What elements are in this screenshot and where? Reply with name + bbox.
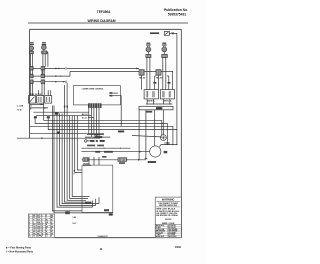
svg-text:BAKE EL: BAKE EL <box>147 100 156 103</box>
svg-text:BROIL EL: BROIL EL <box>163 101 172 103</box>
svg-text:LOWER OVEN CONTROL: LOWER OVEN CONTROL <box>82 88 105 90</box>
surface element box E4 <box>162 52 168 58</box>
door latch cluster top line <box>87 134 104 136</box>
surface element SE6 row3 <box>41 80 45 84</box>
svg-text:10: 10 <box>29 236 31 238</box>
motor feed bus with arrow <box>81 151 149 153</box>
surface element EA <box>139 70 144 76</box>
svg-text:‹NOTE›: ‹NOTE› <box>165 219 172 221</box>
wire EA drop <box>136 68 141 90</box>
relay bank 2 box <box>160 90 174 99</box>
svg-text:BR–BROWN OR–ORNGE: BR–BROWN OR–ORNGE <box>156 215 178 217</box>
surface unit switch SU1 knob <box>29 46 33 50</box>
svg-text:5–BK: 5–BK <box>73 217 77 219</box>
svg-text:ML: ML <box>51 220 53 222</box>
frame left edge (partial) <box>29 29 31 138</box>
surface unit switch SU3 label <box>146 43 150 46</box>
wire drop x145.9 terminal <box>145 110 148 160</box>
wire SE links row1-row2 <box>31 70 45 74</box>
bundle wire V2 <box>60 114 96 206</box>
wire tick marks <box>153 82 170 84</box>
wire label on feed line <box>118 131 124 133</box>
oven sensor label <box>83 164 92 168</box>
svg-text:V VIOLET: V VIOLET <box>156 232 163 234</box>
wire Hb <box>36 114 91 116</box>
svg-text:REL: REL <box>37 233 40 235</box>
svg-text:6: 6 <box>42 215 43 217</box>
surface unit switch SU2 knob <box>42 44 47 50</box>
oven thermostat box <box>37 96 44 104</box>
svg-text:BU: BU <box>46 220 48 222</box>
svg-text:SN: SN <box>51 233 53 235</box>
svg-text:11: 11 <box>42 226 44 228</box>
svg-text:MT: MT <box>51 231 53 233</box>
wire SU2 drops <box>43 53 48 75</box>
latch cluster marks <box>90 140 105 142</box>
bundle wire V5 <box>67 83 86 201</box>
oven sensor element <box>83 158 88 162</box>
svg-text:7: 7 <box>42 217 43 219</box>
connector bar label <box>146 111 152 113</box>
svg-text:RR–SU: RR–SU <box>156 77 163 79</box>
svg-text:216S00137: 216S00137 <box>98 236 109 238</box>
surface unit switch SU1 label <box>30 42 34 45</box>
bottom right label smudges <box>73 217 77 225</box>
wire SU3 drops <box>147 58 150 90</box>
warning rule 1 <box>156 200 180 202</box>
bundle wire V4 <box>65 85 86 202</box>
lamp label <box>164 142 170 146</box>
svg-text:SENSOR: SENSOR <box>83 165 92 167</box>
svg-text:LT: LT <box>51 222 53 224</box>
svg-text:L1–BK: L1–BK <box>18 106 24 108</box>
bundle wire V8 turns right <box>75 116 82 173</box>
svg-text:11: 11 <box>100 247 103 251</box>
staircase labels <box>85 202 109 212</box>
motor circle <box>150 146 161 157</box>
door latch second line <box>85 136 110 138</box>
wire drop x139.1 <box>138 110 140 160</box>
svg-text:9: 9 <box>74 174 75 176</box>
nested corner up-turns <box>93 197 99 207</box>
wire control pins drop <box>118 96 122 127</box>
svg-text:WARNING: WARNING <box>162 198 175 202</box>
wire code table text <box>156 224 179 238</box>
svg-text:Y: Y <box>33 222 34 224</box>
harness labels left of strip <box>82 113 88 119</box>
bundle wire V7 <box>72 116 89 197</box>
surface element box E2 <box>41 51 48 54</box>
cluster lower smudges <box>95 151 113 158</box>
warning rule 2 <box>156 206 180 208</box>
surface unit switch SU4 knob <box>162 46 167 52</box>
oven light assembly label <box>150 32 159 34</box>
bus B1 with arrow and junction <box>33 68 139 70</box>
page number <box>100 247 103 251</box>
svg-text:10/92: 10/92 <box>175 246 182 249</box>
wire Hg <box>30 133 104 135</box>
wire drop x154.7 to motor <box>154 110 156 146</box>
surface element SE3 row2 <box>30 74 33 77</box>
surface element SE1 row1 <box>29 67 33 70</box>
relay bank 1 box <box>144 90 158 99</box>
surface unit switch SU2 label <box>42 42 46 45</box>
svg-text:L1: L1 <box>46 236 48 238</box>
wire SU4 drops <box>163 58 166 90</box>
wire extra drops to banks <box>155 76 169 90</box>
svg-text:W–14: W–14 <box>82 117 87 120</box>
svg-text:SUPPLY: SUPPLY <box>37 236 43 238</box>
terminal blob TB2 <box>47 116 50 118</box>
left pair wire La <box>53 106 83 211</box>
svg-text:5995375491: 5995375491 <box>168 12 187 16</box>
svg-text:BU: BU <box>46 233 48 235</box>
control box label <box>82 88 105 90</box>
control box connector strip <box>88 103 102 108</box>
wire labels at V8 V9 turns <box>74 170 75 175</box>
code table <box>28 214 54 237</box>
publication number text <box>164 8 188 16</box>
footer legend <box>5 247 34 254</box>
supply labels <box>18 105 33 111</box>
frame bottom edge <box>55 237 182 239</box>
wires element rows to switch boxes <box>31 84 51 96</box>
svg-text:R RED: R RED <box>156 227 162 229</box>
wire code table <box>155 225 181 238</box>
oven light element <box>118 158 127 162</box>
wire SU1 drops <box>30 54 32 67</box>
bottom bus y159.8 with arrow <box>82 159 146 161</box>
svg-text:BU: BU <box>33 224 35 226</box>
motor label <box>164 151 168 153</box>
svg-text:BK/W BLK: BK/W BLK <box>168 236 177 238</box>
svg-text:L1: L1 <box>30 105 32 107</box>
svg-text:BU BLUE: BU BLUE <box>168 227 176 229</box>
svg-text:OVN: OVN <box>37 224 40 226</box>
svg-text:GN: GN <box>46 222 48 224</box>
surface element SE4 row2 <box>41 74 45 77</box>
svg-text:DL: DL <box>51 229 53 231</box>
svg-text:BR BROWN: BR BROWN <box>156 231 166 233</box>
wire Hc <box>44 103 162 135</box>
oven selector switch box <box>29 96 36 104</box>
supply line L1 with arrow <box>30 104 45 106</box>
svg-text:8: 8 <box>74 170 75 172</box>
latch labels row <box>87 145 104 147</box>
bus B2 with junction <box>33 72 156 77</box>
terminal blob TB1 <box>34 116 37 118</box>
strip wires down <box>89 108 99 137</box>
svg-text:N–W: N–W <box>18 109 22 111</box>
oven switch third box <box>45 96 52 104</box>
wire stub y117.5 <box>88 117 94 119</box>
warning subtitle <box>159 203 179 207</box>
svg-text:Y: Y <box>46 217 47 219</box>
cluster bus C1 <box>81 148 130 149</box>
svg-text:GN: GN <box>33 226 35 228</box>
label under oven box <box>109 214 113 216</box>
supply line N with arrow <box>30 107 48 109</box>
surface element box E1 <box>30 51 34 54</box>
connector blob TB4 <box>55 112 58 115</box>
bundle wire V3 <box>62 114 99 204</box>
svg-text:OR ORNGE: OR ORNGE <box>168 231 178 233</box>
wire tick smudges on risers <box>64 106 68 108</box>
control box <box>74 86 121 105</box>
oven switch labels <box>29 94 42 96</box>
control box right pins <box>109 92 118 96</box>
code table text <box>29 214 54 238</box>
oven box entry wires <box>89 157 99 165</box>
surface element EB <box>156 70 161 76</box>
oven light switch box <box>164 32 169 36</box>
surface element SE2 row1 <box>41 67 45 70</box>
wire Hf from TB2 <box>48 118 177 130</box>
bus B2 right extension <box>161 71 173 90</box>
svg-text:SU3: SU3 <box>37 220 40 222</box>
wire Hh long feed with arrow <box>17 137 100 139</box>
bus B3 with junction and terminal <box>33 81 67 83</box>
surface unit switch SU4 label <box>162 43 166 46</box>
wire Ha <box>34 111 89 113</box>
connector blob TB3 <box>57 132 60 134</box>
svg-text:RF–SU: RF–SU <box>139 77 146 79</box>
svg-text:PK PINK: PK PINK <box>168 234 175 236</box>
note label <box>165 219 172 221</box>
warning box <box>155 197 181 238</box>
svg-text:SU2: SU2 <box>37 217 40 219</box>
date code <box>175 246 182 249</box>
oven body box <box>82 165 113 212</box>
bus end label <box>148 161 156 163</box>
svg-text:13: 13 <box>42 231 44 233</box>
bundle wire V6 <box>70 116 88 199</box>
wire code header <box>162 223 175 225</box>
svg-text:★ = Fast Moving Parts: ★ = Fast Moving Parts <box>5 247 32 250</box>
svg-text:LMP: LMP <box>37 231 40 233</box>
connector bar <box>139 106 173 110</box>
model number text <box>97 10 111 14</box>
oven light connector dash <box>169 33 174 35</box>
surface unit switch SU3 knob <box>146 46 151 52</box>
wire y144.6 motor-right link <box>160 144 178 147</box>
latch switch circle <box>85 140 90 142</box>
svg-text:9: 9 <box>42 222 43 224</box>
title rule <box>28 22 188 24</box>
svg-text:8: 8 <box>42 220 43 222</box>
warning title <box>162 198 175 202</box>
svg-text:W/BK WHT: W/BK WHT <box>156 236 165 238</box>
oven light element label <box>119 162 125 164</box>
svg-text:† = Non-Illustrated Parts: † = Non-Illustrated Parts <box>6 250 34 253</box>
svg-text:N: N <box>51 236 52 238</box>
bundle wire V1 <box>57 114 93 208</box>
bundle wire V9 turns right <box>77 116 82 170</box>
surface element SE5 row3 <box>30 80 33 84</box>
svg-text:TEF356A: TEF356A <box>97 10 111 14</box>
bottom bus label blob <box>65 211 70 214</box>
wire lamp feed <box>132 136 161 137</box>
title WIRING DIAGRAM <box>88 19 116 23</box>
drawing number <box>98 236 109 238</box>
surface element EB label <box>156 77 163 79</box>
frame top edge <box>30 28 182 30</box>
svg-text:W WHITE: W WHITE <box>168 225 176 227</box>
svg-text:GN GREEN: GN GREEN <box>168 229 178 231</box>
svg-text:Y YELLOW: Y YELLOW <box>156 229 165 231</box>
wire light to right drop <box>174 33 177 144</box>
lamp symbol <box>160 135 166 141</box>
svg-text:SU1: SU1 <box>37 215 40 217</box>
svg-text:12: 12 <box>42 229 44 231</box>
frame right edge <box>180 29 182 237</box>
warning paragraph <box>156 209 180 217</box>
surface element EA label <box>139 77 146 79</box>
wire Hd from TB1 <box>35 118 167 144</box>
relay bus <box>146 99 173 105</box>
surface element box E3 <box>146 52 151 58</box>
surface unit SU2 stem <box>43 50 45 52</box>
relay bank labels <box>147 100 173 103</box>
wire drop x163.3 to lamp <box>162 110 164 135</box>
svg-text:10: 10 <box>42 224 44 226</box>
left pair wire Lb <box>54 106 113 213</box>
wire EB drop with tick <box>158 75 160 89</box>
wire He <box>30 126 173 145</box>
